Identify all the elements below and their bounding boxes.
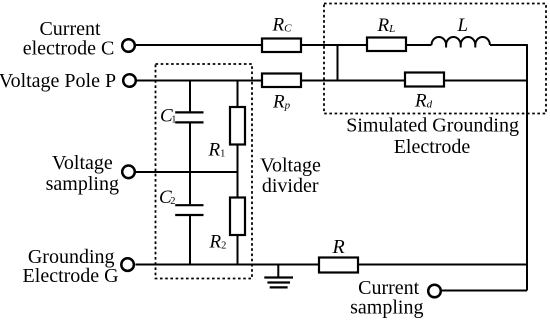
svg-text:R: R [332, 236, 345, 258]
svg-text:sampling: sampling [350, 297, 423, 319]
svg-text:L: L [457, 15, 469, 36]
svg-text:Voltage Pole P: Voltage Pole P [0, 70, 116, 92]
svg-text:Electrode: Electrode [394, 136, 471, 158]
svg-text:sampling: sampling [46, 173, 119, 195]
svg-text:Electrode G: Electrode G [23, 265, 119, 287]
svg-text:Voltage: Voltage [260, 155, 321, 177]
svg-text:electrode C: electrode C [23, 38, 115, 60]
svg-text:Simulated Grounding: Simulated Grounding [346, 115, 519, 137]
svg-text:Voltage: Voltage [52, 152, 113, 174]
svg-text:divider: divider [262, 175, 319, 197]
